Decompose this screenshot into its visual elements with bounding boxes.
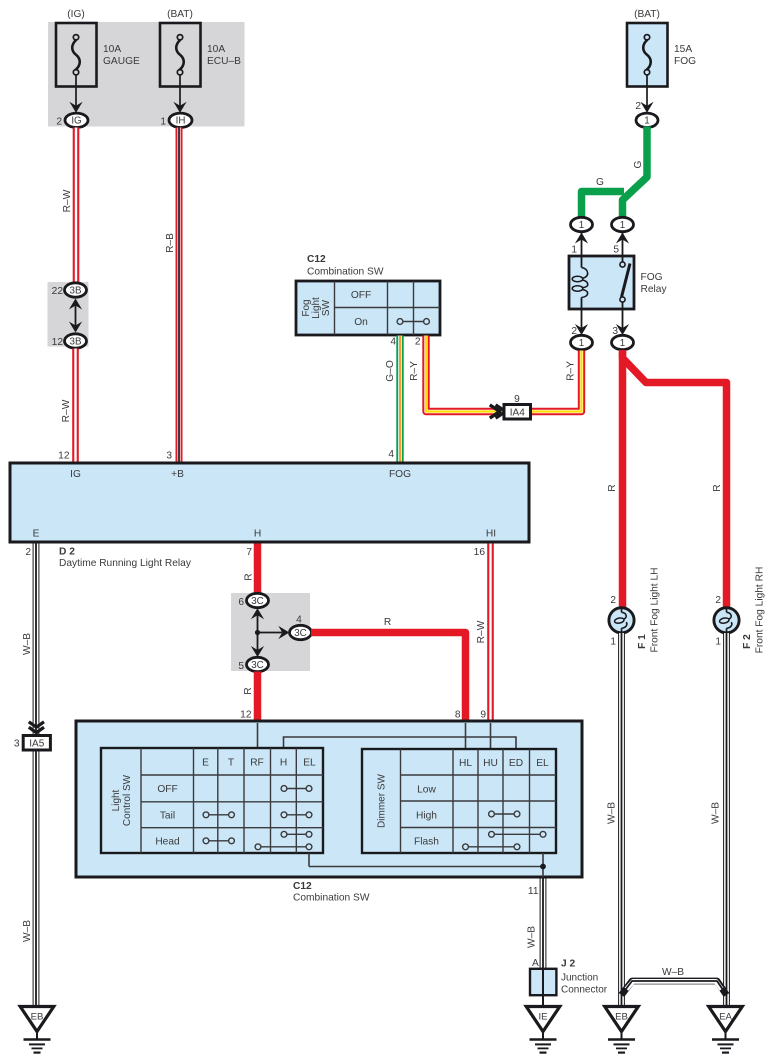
svg-text:5: 5 [613,245,619,256]
svg-text:1: 1 [620,338,625,349]
ground IE [526,1007,560,1053]
svg-text:IA5: IA5 [29,739,44,750]
svg-text:Control SW: Control SW [122,774,133,826]
connector box IA5 pin 3 [14,736,51,751]
value label 10A GAUGE [103,44,140,67]
svg-text:12: 12 [240,710,252,721]
connector oval 1 relay pin 2 out [571,335,593,349]
junction block gray background (top left fuse block) [48,22,245,127]
FOG relay body [569,256,634,309]
svg-text:W–B: W–B [662,967,684,978]
pin number 1 at F2 [715,637,721,648]
label G on diagonal [633,160,644,168]
svg-text:1: 1 [579,220,584,231]
svg-text:3B: 3B [70,285,82,296]
connector oval 3C pin 4 [290,615,312,640]
C12 internal wire pin 9 to HU [490,723,492,749]
wire W-B C12 pin 11 to J2 [540,879,547,970]
svg-text:2: 2 [415,337,421,348]
ground EA [709,1007,743,1053]
FOG relay coil [572,257,588,308]
dimmer header HL [459,758,472,769]
chevrons into IA5 [29,722,44,733]
contact Head RF-EL [255,844,312,850]
pin number 12 at C12 [240,710,252,721]
svg-text:F 1: F 1 [637,634,648,649]
svg-text:2: 2 [610,595,616,606]
connector oval 3B pin 12 [52,334,87,348]
fog switch On contact [397,319,429,325]
fuse F2 element symbol [176,35,184,75]
svg-text:1: 1 [715,637,721,648]
light control header H [280,758,287,769]
svg-text:IH: IH [176,116,186,127]
3C junction wiring [255,612,282,652]
pin number 1 at F1 [610,637,616,648]
label On [354,317,368,328]
light control header T [228,758,234,769]
svg-text:Dimmer SW: Dimmer SW [377,774,388,828]
contact Head E-T [203,838,234,844]
connector oval IH pin 1 [160,113,192,127]
svg-text:HL: HL [459,758,472,769]
wire fuse F2 to connector IH [179,75,181,112]
C12 internal wire H to ED [284,737,517,749]
svg-text:Front Fog Light RH: Front Fog Light RH [755,567,766,654]
value label 15A FOG [674,44,696,67]
label pin 4 bottom [388,449,394,460]
junction connector J2 body [530,969,556,995]
svg-text:10A: 10A [103,44,121,55]
label R at F1 [607,484,618,491]
svg-text:Daytime Running Light Relay: Daytime Running Light Relay [59,558,192,569]
contact Tail H-EL [281,812,312,818]
front fog light F2 bulb [714,608,739,633]
svg-text:Light: Light [111,789,122,811]
svg-text:H: H [280,758,287,769]
dimmer header EL [536,758,549,769]
svg-text:Front Fog Light LH: Front Fog Light LH [650,568,661,653]
chevrons into IA4 [490,405,506,418]
svg-text:Junction: Junction [561,973,598,984]
wire G-O C12 pin 4 to D2 FOG [396,336,403,464]
connector oval 1 below fuse FOG [636,113,658,127]
svg-text:3C: 3C [251,660,264,671]
arrow down into 3C pin 5 [251,646,264,657]
light control switch grid [141,748,323,853]
svg-text:R: R [244,573,255,580]
svg-text:1: 1 [644,116,649,127]
wire G fuse FOG to relay pin 5 [623,127,648,219]
C12 internal wire pin 8 to HL [465,723,467,749]
svg-text:OFF: OFF [351,290,371,301]
label W-B crossover [662,967,684,978]
label R-Y left [409,361,420,381]
connector oval 3C pin 6 [238,593,268,608]
label R horizontal [384,617,391,628]
pin number 12 at D2 IG [58,451,70,462]
svg-text:R–W: R–W [61,399,72,422]
svg-text:1: 1 [610,637,616,648]
value label 10A ECU-B [207,44,241,67]
pin number 9 at C12 [480,710,486,721]
label FOG Relay [641,272,668,295]
svg-text:R: R [712,484,723,491]
svg-text:On: On [354,317,368,328]
svg-text:IG: IG [71,116,81,127]
svg-text:R–Y: R–Y [409,361,420,381]
dimmer header HU [483,758,498,769]
dimmer switch grid [401,749,557,853]
contact Flash HL-ED [463,844,520,850]
contact Tail E-T [203,812,234,818]
svg-text:6: 6 [238,597,244,608]
fuse label (BAT) right [634,9,660,20]
svg-text:2: 2 [635,101,641,112]
pin number 2 at F2 [715,595,721,606]
label W-B upper left [22,633,33,655]
wire fuse F1 to connector IG [75,75,77,112]
C12 internal wire EL to pin 11 [309,853,546,877]
svg-text:IG: IG [70,469,81,480]
svg-text:W–B: W–B [711,802,722,824]
svg-text:9: 9 [480,710,486,721]
label Fog Light SW rotated [301,297,332,319]
label R-W upper [62,189,73,212]
label R above 3C [244,573,255,580]
svg-text:3B: 3B [70,336,82,347]
svg-text:ECU–B: ECU–B [207,56,241,67]
label R-Y right [566,361,577,381]
label G-O [385,360,396,382]
contact High HU-ED [489,811,520,817]
pin number 11 at C12 [528,886,539,897]
label F 2 Front Fog Light RH [742,567,766,654]
D2 pin name E [33,529,40,540]
svg-text:Tail: Tail [160,811,175,822]
light control header E [202,758,209,769]
row label Head [155,837,180,848]
svg-text:1: 1 [571,245,577,256]
ground EB left [20,1007,54,1053]
svg-text:1: 1 [579,338,584,349]
row label High [416,811,437,822]
svg-text:E: E [202,758,209,769]
svg-text:R: R [384,617,391,628]
svg-text:1: 1 [620,220,625,231]
fuse label (BAT) left [167,9,193,20]
pin number 3 at D2 +B [166,451,172,462]
svg-text:2: 2 [25,547,31,558]
arrow into connector IH [173,102,186,113]
arrow up into 3C pin 6 [251,608,264,619]
svg-text:W–B: W–B [607,802,618,824]
D2 pin name HI [486,529,496,540]
svg-text:1: 1 [160,116,166,127]
svg-text:T: T [228,758,234,769]
label R below 3C [243,687,254,694]
fuse F3 15A FOG body [627,23,668,87]
pin number 2 at D2 E [25,547,31,558]
pin number 7 at D2 H [246,547,252,558]
svg-text:Combination SW: Combination SW [307,267,384,278]
svg-text:FOG: FOG [674,56,696,67]
row label OFF [157,784,177,795]
D2 pin name H [254,529,261,540]
svg-text:Combination SW: Combination SW [293,893,370,904]
label W-B lower left [22,920,33,942]
wire R-W fuse IG to 3B [73,128,80,285]
svg-text:W–B: W–B [22,920,33,942]
row label Low [417,785,436,796]
svg-text:15A: 15A [674,44,692,55]
label D 2 Daytime Running Light Relay [59,547,192,570]
wire R D2 H to 3C [254,544,262,595]
arrow into connector IG [69,102,82,113]
label W-B at pin 11 [527,926,538,948]
contact OFF H-EL [281,786,312,792]
wire R-B fuse ECU-B to D2 relay [176,128,183,464]
connector oval 1 relay coil top [571,217,593,231]
label R-B [165,233,176,253]
svg-text:W–B: W–B [527,926,538,948]
wire R 3C pin 4 to C12 pin 8 [311,633,466,723]
label W-B at F1 [607,802,618,824]
C12 combination switch body [76,721,582,877]
svg-text:F 2: F 2 [742,634,753,649]
svg-text:8: 8 [455,710,461,721]
wire relay pin 3 to oval [612,308,629,337]
svg-text:Head: Head [155,837,180,848]
D2 pin name FOG [389,469,411,480]
label pin 4 top [390,337,396,348]
svg-text:H: H [254,529,261,540]
arrow into connector 1 (fuse FOG) [640,102,653,113]
svg-text:GAUGE: GAUGE [103,56,140,67]
svg-text:EL: EL [536,758,549,769]
svg-text:High: High [416,811,437,822]
label R-W right [476,620,487,643]
svg-text:(IG): (IG) [67,9,85,20]
D2 daytime running light relay body [10,463,529,542]
svg-text:G: G [633,160,644,168]
wire R 3C to C12 pin 12 [254,672,262,723]
svg-text:3C: 3C [251,596,264,607]
arrow right into 3C pin 4 [278,626,289,639]
svg-text:Flash: Flash [414,837,439,848]
svg-text:Low: Low [417,785,436,796]
svg-text:E: E [33,529,40,540]
svg-text:IE: IE [538,1012,547,1023]
svg-text:3: 3 [166,451,172,462]
light control header EL [303,758,316,769]
wire W-B F1 to ground EB [618,633,625,1006]
row label Flash [414,837,439,848]
svg-text:10A: 10A [207,44,225,55]
svg-text:FOG: FOG [641,272,663,283]
wire R-W D2 HI to C12 pin 9 [487,544,494,723]
svg-text:D 2: D 2 [59,547,75,558]
svg-text:FOG: FOG [389,469,411,480]
wire oval to relay pin 1 [571,232,588,257]
label Dimmer SW rotated [377,774,388,828]
connector block 3B gray background [48,282,89,347]
label OFF [351,290,371,301]
label C12 Combination SW (lower) [293,881,370,904]
wire relay pin 2 to oval [571,308,588,337]
arrow down into 3B pin 12 [69,322,82,333]
wire W-B D2 E to ground EB [33,544,40,1007]
svg-text:2: 2 [56,116,62,127]
svg-text:4: 4 [296,615,302,626]
label R-W lower [61,399,72,422]
fuse label (IG) [67,9,85,20]
light control header RF [250,758,264,769]
connector oval 1 relay switch top [612,217,634,231]
svg-text:2: 2 [715,595,721,606]
wire W-B F2 to ground EA [723,633,730,1006]
light control switch table frame [101,748,323,853]
svg-text:5: 5 [238,661,244,672]
svg-text:R–Y: R–Y [566,361,577,381]
svg-text:11: 11 [528,886,539,897]
svg-text:EA: EA [719,1012,732,1023]
connector block 3C gray background [231,593,310,671]
connector oval 3B pin 22 [52,283,87,297]
svg-text:Relay: Relay [641,284,668,295]
svg-text:16: 16 [474,547,486,558]
svg-text:R–B: R–B [165,233,176,253]
svg-text:(BAT): (BAT) [167,9,193,20]
dimmer switch table frame [362,749,556,853]
svg-text:3: 3 [14,739,20,750]
svg-text:EB: EB [31,1012,44,1023]
connector box IA4 pin 9 [504,394,531,419]
svg-text:W–B: W–B [22,633,33,655]
dimmer header ED [509,758,523,769]
C12 fog light switch body [296,281,440,335]
svg-text:3C: 3C [294,628,307,639]
svg-text:Connector: Connector [561,985,608,996]
svg-text:G–O: G–O [385,360,396,382]
svg-text:4: 4 [388,449,394,460]
wire G branch to relay pin 1 [582,192,625,219]
svg-text:ED: ED [509,758,523,769]
fuse F3 element symbol [643,35,651,75]
svg-text:A: A [532,958,539,969]
svg-text:EB: EB [615,1012,628,1023]
svg-text:C12: C12 [307,254,326,265]
svg-text:C12: C12 [293,881,312,892]
D2 pin name +B [171,469,184,480]
wire R branch to F2 [623,352,727,608]
svg-text:12: 12 [52,337,64,348]
label G on horizontal [596,177,604,188]
FOG relay switch [620,257,630,308]
svg-text:OFF: OFF [157,784,177,795]
C12 internal wire pin 12 to RF [257,723,259,748]
label pin 2 C12 fog switch [415,337,421,348]
svg-text:RF: RF [250,758,264,769]
connector oval 1 relay pin 3 out [612,335,634,349]
connector oval IG pin 2 [56,113,88,127]
wire between 3B connectors [75,300,77,331]
row label Tail [160,811,175,822]
label F 1 Front Fog Light LH [637,568,661,653]
fuse F1 10A GAUGE body [56,23,97,87]
wire R relay pin 3 to F1 [619,350,627,608]
ground EB right [605,1007,639,1053]
wire fuse F3 pin 2 [635,75,647,112]
fuse F2 10A ECU-B body [160,23,201,87]
label Light Control SW rotated [111,774,133,826]
svg-text:R: R [243,687,254,694]
C12 fog switch grid [335,281,441,335]
svg-text:12: 12 [58,451,70,462]
svg-text:HU: HU [483,758,498,769]
wire R-Y IA4 to relay pin 2 oval [530,351,582,412]
svg-text:SW: SW [321,299,332,316]
wire through J2 to ground IE [542,969,544,1007]
svg-text:R–W: R–W [62,189,73,212]
D2 pin name IG [70,469,81,480]
svg-text:HI: HI [486,529,496,540]
svg-text:4: 4 [390,337,396,348]
label J 2 Junction Connector [561,959,608,996]
wire R-Y C12 pin 2 to IA4 [426,336,503,412]
svg-text:+B: +B [171,469,184,480]
svg-text:22: 22 [52,286,64,297]
label R at F2 [712,484,723,491]
svg-text:7: 7 [246,547,252,558]
contact Head H-EL [281,831,312,837]
pin label A at J2 [532,958,539,969]
arrow up into 3B pin 22 [69,299,82,310]
svg-text:R–W: R–W [476,620,487,643]
front fog light F1 bulb [609,608,634,633]
wire oval to relay pin 5 [613,232,629,257]
fuse F1 element symbol [72,35,80,75]
svg-text:IA4: IA4 [510,408,525,419]
svg-text:EL: EL [303,758,316,769]
wire W-B crossover link [622,981,727,995]
contact Flash HU-EL [489,831,546,837]
wire R-W 3B to D2 relay [72,349,79,464]
label C12 Combination SW (upper) [307,254,384,278]
pin number 8 at C12 [455,710,461,721]
svg-text:J 2: J 2 [561,959,575,970]
svg-text:9: 9 [514,394,520,405]
svg-text:(BAT): (BAT) [634,9,660,20]
pin number 16 at D2 HI [474,547,486,558]
connector oval 3C pin 5 [238,657,268,672]
svg-text:R: R [607,484,618,491]
pin number 2 at F1 [610,595,616,606]
svg-text:G: G [596,177,604,188]
label W-B at F2 [711,802,722,824]
